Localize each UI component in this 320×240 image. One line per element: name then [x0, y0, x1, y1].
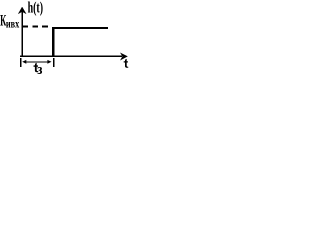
svg-text:з: з: [37, 62, 42, 77]
right dimension tick: [53, 58, 55, 67]
dimension left arrowhead: [22, 60, 26, 64]
step top line h(t)=K: [52, 27, 108, 29]
y-axis h(t) vertical line: [21, 10, 23, 57]
x-axis arrowhead: [120, 53, 128, 61]
label t3 delay time t: [33, 63, 38, 72]
left dimension tick: [20, 58, 22, 67]
dimension right arrowhead: [47, 60, 51, 64]
svg-text:h(t): h(t): [28, 0, 43, 16]
x-axis t horizontal line: [20, 55, 122, 57]
dimension double-arrow shaft: [25, 61, 49, 63]
label t at x-axis end: [124, 59, 129, 68]
dashed level line at K: [22, 25, 52, 27]
y-axis arrowhead: [18, 7, 26, 14]
step vertical edge at t=t3: [52, 27, 55, 57]
svg-text:ивх: ивх: [6, 18, 20, 31]
